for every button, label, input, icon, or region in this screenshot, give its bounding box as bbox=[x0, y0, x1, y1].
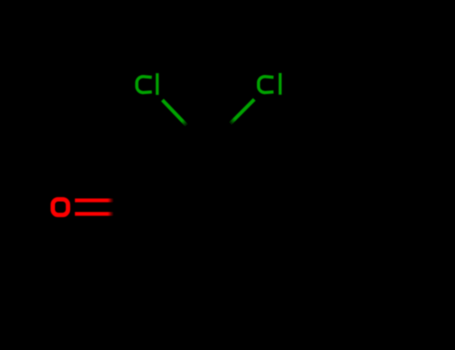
atom label Cl (chlorine 2) bbox=[258, 73, 281, 95]
double bond C=O line 1 bbox=[75, 199, 114, 203]
bond C-Cl1 (green half) bbox=[162, 100, 187, 126]
atom label O (oxygen) bbox=[53, 199, 68, 215]
atom label Cl (chlorine 1) bbox=[137, 73, 159, 95]
bond C-Cl2 (green half) bbox=[230, 99, 255, 124]
double bond C=O line 2 bbox=[75, 212, 114, 216]
